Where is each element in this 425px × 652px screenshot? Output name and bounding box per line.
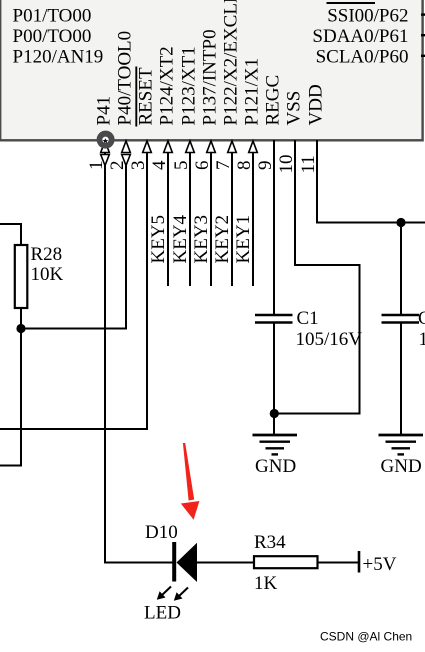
wire pin11 VDD routing: [317, 140, 425, 223]
wire VDD to right capacitor: [400, 223, 402, 317]
svg-text:P121/X1: P121/X1: [242, 58, 263, 126]
LED D10 cathode bar: [172, 542, 176, 582]
svg-text:7: 7: [213, 161, 234, 171]
svg-text:P123/XT1: P123/XT1: [179, 46, 200, 125]
svg-text:C2: C2: [418, 308, 425, 329]
svg-text:4: 4: [149, 160, 170, 170]
resistor R34: [254, 556, 318, 568]
svg-text:KEY1: KEY1: [233, 215, 254, 264]
svg-text:GND: GND: [381, 456, 422, 477]
svg-text:P41: P41: [94, 96, 115, 126]
svg-text:SCLA0/P60: SCLA0/P60: [316, 46, 409, 67]
svg-text:CSDN @Al Chen: CSDN @Al Chen: [320, 630, 412, 644]
capacitor C2 bottom plate: [382, 321, 420, 324]
svg-text:P40/TOOL0: P40/TOOL0: [115, 31, 136, 126]
svg-text:105/16V: 105/16V: [419, 329, 425, 350]
svg-text:P120/AN19: P120/AN19: [13, 46, 104, 67]
wire C1 bottom to GND: [273, 323, 275, 436]
LED D10 triangle: [177, 543, 198, 582]
wire pin2 vertical: [21, 154, 126, 329]
svg-text:P00/TO00: P00/TO00: [13, 26, 92, 47]
arrowhead down pin2: [122, 155, 131, 166]
svg-text:C1: C1: [297, 308, 319, 329]
junction node R28 bottom: [16, 324, 25, 333]
arrowhead up pin1: [101, 141, 110, 153]
wire R28 node down to left edge: [0, 329, 21, 466]
IC U1 body: [0, 0, 422, 140]
pin1 marker circle: [97, 131, 115, 149]
svg-text:9: 9: [255, 161, 276, 171]
wire pin1 vertical: [105, 148, 173, 563]
LED light arrow 1: [157, 587, 171, 600]
svg-text:3: 3: [128, 161, 149, 171]
svg-text:105/16V: 105/16V: [296, 329, 363, 350]
pin stub P60: [421, 55, 425, 57]
svg-text:P137/INTP0: P137/INTP0: [200, 29, 221, 125]
+5V terminal bar: [358, 551, 361, 573]
svg-text:P124/XT2: P124/XT2: [157, 46, 178, 125]
pin label SSI00/P62 with overline: [327, 3, 409, 27]
svg-text:+5V: +5V: [363, 554, 397, 575]
ground GND2: [379, 435, 424, 454]
svg-text:P01/TO00: P01/TO00: [13, 6, 92, 27]
pin name RESET with overline: [136, 67, 157, 127]
svg-text:10: 10: [276, 155, 297, 174]
svg-text:LED: LED: [144, 603, 181, 624]
capacitor C2 top plate: [382, 314, 420, 317]
wire R28 top from left edge: [0, 224, 21, 246]
arrowhead up pin8: [249, 141, 258, 153]
svg-text:6: 6: [192, 161, 213, 171]
wire pin10 VSS routing: [274, 140, 360, 414]
svg-text:KEY2: KEY2: [212, 215, 233, 264]
arrowhead up pin7: [228, 141, 237, 153]
junction node C1 GND: [270, 409, 279, 418]
svg-text:SSI00/P62: SSI00/P62: [327, 6, 408, 27]
svg-text:SDAA0/P61: SDAA0/P61: [312, 26, 408, 47]
pin stub P62: [421, 13, 425, 15]
svg-text:8: 8: [234, 161, 255, 171]
wire pin8 KEY1 stub: [252, 152, 254, 286]
wire pin5 KEY4 stub: [189, 152, 191, 286]
svg-text:KEY3: KEY3: [191, 215, 212, 264]
wire LED to R34: [197, 562, 254, 564]
ground GND1: [253, 435, 298, 454]
svg-text:KEY5: KEY5: [148, 215, 169, 264]
svg-text:R28: R28: [31, 244, 63, 265]
pin stub P61: [421, 34, 425, 36]
svg-text:R34: R34: [254, 532, 286, 553]
wire C2 bottom to GND: [400, 323, 402, 436]
capacitor C1 bottom plate: [255, 321, 293, 324]
wire pin3 RESET vertical: [0, 152, 147, 429]
capacitor C1 top plate: [255, 314, 293, 317]
wire pin6 KEY3 stub: [210, 152, 212, 286]
svg-text:D10: D10: [145, 522, 178, 543]
arrowhead down pin1: [101, 155, 110, 166]
wire R28 bottom stub: [20, 308, 22, 329]
arrowhead up pin6: [207, 141, 216, 153]
svg-text:RESET: RESET: [136, 67, 157, 125]
svg-text:KEY4: KEY4: [170, 214, 191, 263]
svg-text:GND: GND: [255, 456, 296, 477]
svg-text:VDD: VDD: [306, 84, 327, 125]
wire pin4 KEY5 stub: [167, 152, 169, 286]
svg-text:P122/X2/EXCLK: P122/X2/EXCLK: [221, 0, 242, 126]
svg-text:1K: 1K: [254, 573, 278, 594]
arrowhead up pin3: [143, 141, 152, 153]
svg-text:5: 5: [171, 161, 192, 171]
arrowhead up pin2: [122, 141, 131, 153]
wire R34 to +5V: [318, 562, 360, 564]
junction node VDD cap: [396, 218, 405, 227]
svg-text:10K: 10K: [31, 264, 64, 285]
LED light arrow 2: [174, 588, 188, 601]
svg-text:VSS: VSS: [284, 91, 305, 126]
svg-text:REGC: REGC: [263, 75, 284, 126]
annotation red arrow: [181, 443, 200, 520]
wire pin7 KEY2 stub: [231, 152, 233, 286]
resistor R28: [15, 245, 27, 308]
arrowhead up pin4: [164, 141, 173, 153]
svg-text:11: 11: [298, 155, 319, 173]
arrowhead up pin5: [186, 141, 195, 153]
wire pin9 REGC to C1: [273, 140, 275, 316]
